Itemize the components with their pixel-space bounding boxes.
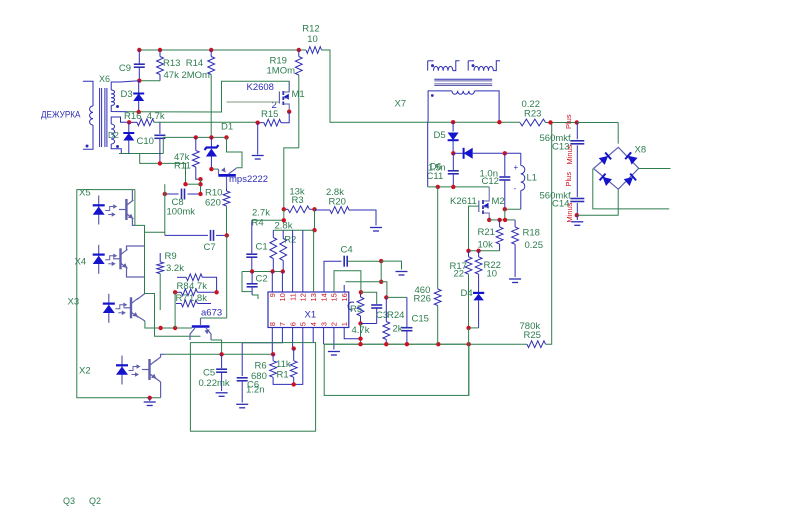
svg-text:R26: R26	[414, 294, 431, 305]
wire M1 gate	[227, 101, 280, 103]
capacitor C14	[540, 191, 585, 226]
svg-text:R12: R12	[302, 24, 319, 35]
transformer X7 primary windings	[428, 61, 500, 71]
svg-text:D4: D4	[461, 288, 473, 299]
resistor R16	[129, 119, 258, 126]
wire R11 bottom node	[183, 177, 202, 194]
label M2	[492, 196, 505, 207]
wire X7 bottom rail	[428, 120, 520, 124]
resistor R14	[208, 50, 215, 137]
svg-text:0.25: 0.25	[525, 240, 544, 251]
wire D4 bottom to rail	[466, 326, 478, 345]
capacitor C12	[480, 151, 511, 209]
svg-text:12: 12	[299, 293, 308, 301]
svg-text:C10: C10	[137, 136, 154, 147]
resistor R10	[223, 188, 230, 235]
svg-text:M2: M2	[492, 196, 505, 207]
resistor R8	[173, 289, 219, 296]
label 47k 2MOm	[164, 70, 211, 81]
diode D4	[461, 288, 485, 328]
wire M2 source rail	[487, 218, 515, 222]
label 2.8k	[275, 221, 293, 232]
capacitor C13	[540, 123, 585, 198]
resistor R1	[290, 346, 297, 386]
box A around C5/C6	[190, 343, 315, 432]
transformer X6	[83, 74, 139, 154]
wire pin15 to R5	[334, 271, 361, 293]
svg-text:ДЕЖУРКА: ДЕЖУРКА	[41, 110, 81, 121]
inductor L1	[514, 153, 538, 209]
junction dots R3	[282, 207, 317, 211]
capacitor C10	[137, 122, 166, 163]
wire L1 bottom	[503, 207, 521, 220]
label 2.7k	[252, 208, 270, 219]
wire bridge left output	[593, 169, 669, 209]
svg-text:10: 10	[278, 293, 287, 301]
svg-text:X5: X5	[79, 188, 91, 199]
wire R24 top to C15	[386, 296, 407, 298]
svg-text:M1: M1	[292, 89, 305, 100]
wire pin10	[281, 272, 283, 293]
wire bridge bottom	[577, 189, 618, 215]
label X2	[79, 366, 91, 377]
optocoupler X3	[103, 294, 145, 323]
label 11k R1	[276, 359, 291, 381]
capacitor C1	[246, 220, 267, 271]
capacitor C6	[236, 378, 264, 408]
resistor R23	[520, 99, 577, 126]
wire C2 corner	[242, 272, 252, 292]
svg-text:D1: D1	[221, 122, 233, 133]
svg-text:10k: 10k	[478, 240, 494, 251]
wire pin6 to R1	[292, 328, 294, 349]
svg-text:+: +	[514, 163, 519, 172]
ground pin2	[328, 352, 340, 356]
transformer X7 secondary	[428, 91, 499, 122]
label M1	[292, 89, 305, 100]
svg-text:R21: R21	[478, 227, 495, 238]
box B feedback	[324, 344, 469, 395]
svg-text:R15: R15	[261, 109, 278, 120]
svg-text:620: 620	[205, 198, 221, 209]
svg-text:C5: C5	[203, 368, 215, 379]
svg-text:4: 4	[309, 322, 318, 326]
svg-text:100mk: 100mk	[167, 207, 196, 218]
wire R5 bottom node	[358, 324, 362, 345]
label X4	[75, 257, 87, 268]
svg-text:8: 8	[268, 322, 277, 326]
resistor R9	[157, 251, 177, 310]
svg-text:C9: C9	[119, 63, 131, 74]
wire R8 left feed	[174, 292, 176, 328]
svg-text:2k: 2k	[393, 324, 403, 335]
transistor a673	[190, 308, 222, 341]
resistor R6	[251, 354, 294, 384]
resistor R26	[414, 187, 442, 344]
wire C4 ground branch	[381, 261, 401, 269]
svg-text:-: -	[514, 184, 517, 193]
svg-text:0.22mk: 0.22mk	[199, 378, 230, 389]
svg-text:L1: L1	[527, 173, 538, 184]
IC X1 body	[268, 292, 349, 328]
wire pin11	[292, 230, 294, 292]
svg-text:R18: R18	[523, 228, 540, 239]
junction dots R5	[358, 290, 363, 326]
wire pin4	[312, 328, 314, 343]
svg-text:C11: C11	[427, 171, 444, 182]
optocoupler box X5-X2 outline	[77, 190, 161, 398]
wire X3 collector branch	[145, 294, 201, 337]
svg-text:5: 5	[299, 322, 308, 326]
svg-text:R1: R1	[277, 370, 289, 381]
svg-text:D5: D5	[434, 130, 446, 141]
wire box B right edge	[468, 344, 470, 395]
label pin 2	[272, 100, 277, 111]
ground X2 box	[144, 396, 156, 406]
resistor R17	[450, 251, 472, 328]
svg-text:R2: R2	[284, 235, 296, 246]
optocoupler X4	[93, 245, 145, 277]
label Q3	[63, 496, 75, 506]
svg-text:4.7k: 4.7k	[352, 325, 370, 336]
label C3 R24	[376, 310, 404, 321]
svg-text:10: 10	[307, 34, 318, 45]
label X3	[68, 297, 80, 308]
svg-text:R13 R14: R13 R14	[163, 58, 203, 69]
svg-text:R16 4.7k: R16 4.7k	[124, 111, 165, 122]
label R8 4.7k	[177, 281, 208, 292]
svg-text:K2608: K2608	[247, 82, 274, 93]
label K2611	[450, 196, 477, 207]
wire pins9-10 rail	[242, 269, 285, 273]
svg-text:R23: R23	[524, 109, 541, 120]
label R10 620	[205, 188, 222, 209]
capacitor C7	[165, 230, 229, 253]
junction dots R23 right	[548, 120, 579, 124]
label Q2	[89, 496, 101, 506]
wire pin9	[271, 272, 273, 293]
resistor R25	[520, 123, 552, 348]
resistor R12	[302, 24, 321, 54]
capacitor C8	[163, 189, 203, 218]
junction dot D5 bottom	[451, 151, 455, 155]
wire D3 to K2608 drain	[127, 81, 289, 112]
svg-text:K2611: K2611	[450, 196, 477, 207]
bridge rectifier X8	[594, 147, 639, 189]
label 4.7k	[352, 325, 370, 336]
capacitor C2	[247, 272, 268, 300]
transformer X7 core	[434, 79, 492, 85]
wire C7 to a673 collector	[226, 235, 228, 318]
diode D5	[434, 122, 459, 153]
svg-text:C1: C1	[256, 242, 268, 253]
wire left vertical to C7	[164, 184, 166, 235]
svg-text:3.2k: 3.2k	[166, 263, 184, 274]
svg-text:C12: C12	[482, 176, 499, 187]
svg-text:2: 2	[330, 322, 339, 326]
label Plus upper	[564, 114, 573, 129]
resistor R2	[280, 230, 297, 271]
wire C9-R13 bottom	[139, 80, 160, 82]
optocoupler X5	[93, 190, 135, 225]
resistor R18	[509, 220, 543, 283]
wire pin14 to C4	[324, 261, 342, 292]
svg-text:D6: D6	[430, 162, 442, 172]
svg-text:1.2n: 1.2n	[246, 385, 265, 396]
label X5	[79, 188, 91, 199]
capacitor C11	[427, 153, 459, 187]
resistor R13	[157, 50, 164, 81]
svg-text:11: 11	[288, 293, 297, 301]
wire pin8	[271, 328, 273, 355]
svg-text:C7: C7	[204, 242, 216, 253]
wire R12 to X7 rail	[322, 50, 429, 122]
svg-text:Plus: Plus	[564, 114, 573, 129]
transistor Q mps2222	[211, 167, 268, 188]
mosfet M1	[279, 81, 289, 111]
resistor R20	[315, 187, 377, 226]
label X8	[635, 145, 647, 156]
svg-text:X6: X6	[99, 74, 110, 84]
svg-text:Minus: Minus	[565, 202, 574, 222]
label R16 4.7k	[124, 111, 165, 122]
mosfet M2	[479, 187, 489, 220]
svg-text:R20: R20	[329, 197, 346, 208]
wire X4 chain vertical	[144, 232, 146, 293]
resistor R4 vertical	[270, 230, 277, 271]
svg-text:Plus: Plus	[564, 172, 573, 187]
label 2k	[393, 324, 403, 335]
junction dot M1 source	[287, 110, 291, 114]
svg-text:R3: R3	[292, 195, 304, 206]
svg-text:9: 9	[268, 293, 277, 297]
svg-text:11k: 11k	[276, 359, 291, 370]
wire pin2 to ground	[333, 328, 335, 350]
resistor R19	[267, 50, 303, 148]
resistor R3	[284, 187, 315, 213]
IC X1 top pin numbers	[268, 293, 349, 301]
label R7 1.8k	[176, 293, 208, 304]
junction dots top rail	[137, 48, 301, 52]
diode D3	[121, 81, 145, 112]
junction dot R16 left	[127, 120, 131, 124]
wire pin13	[313, 230, 315, 292]
wire mps2222 collector	[227, 137, 243, 167]
svg-text:C15: C15	[412, 314, 429, 325]
junction dot D3 bottom	[137, 110, 141, 114]
zener D1	[205, 122, 234, 170]
svg-text:C4: C4	[341, 245, 353, 256]
wire plus rail to bridge	[577, 122, 618, 124]
ground R20	[370, 228, 382, 232]
wire 2.8k node	[273, 209, 316, 232]
capacitor C5	[199, 354, 230, 396]
wire bridge right output	[638, 168, 670, 170]
wire pin1 to R5 bottom	[344, 328, 360, 339]
svg-text:R8: R8	[177, 281, 189, 292]
resistor R5	[177, 274, 217, 292]
wire pin12	[302, 230, 304, 292]
svg-text:R24: R24	[387, 310, 404, 321]
capacitor C4	[341, 245, 382, 267]
label Minus upper	[565, 144, 574, 164]
svg-text:7: 7	[278, 322, 287, 326]
svg-text:16: 16	[340, 293, 349, 301]
junction dots a673 base rail	[158, 326, 177, 330]
label R4	[252, 218, 264, 229]
label 47k R11	[174, 152, 191, 172]
svg-text:Minus: Minus	[565, 144, 574, 164]
wire pin16 stub	[343, 285, 345, 292]
wire X7 left lead down	[427, 122, 429, 187]
svg-text:2.8k: 2.8k	[275, 221, 293, 232]
capacitor C9	[119, 50, 145, 81]
wire left end rail to D1 rail	[162, 137, 164, 153]
svg-text:1: 1	[340, 322, 349, 326]
svg-text:mps2222: mps2222	[229, 174, 268, 185]
wire X3 emitter to a673 base rail	[145, 321, 192, 328]
wire X5 emitter to C7/C8 vertical	[135, 190, 165, 233]
junction dot C4 right	[379, 259, 383, 263]
label R13 R14	[163, 58, 203, 69]
junction dots rail D1 net	[194, 135, 229, 139]
wire M2 gate	[469, 206, 479, 251]
capacitor C15	[401, 297, 429, 344]
svg-text:13: 13	[309, 293, 318, 301]
wire C11 bottom rail	[428, 185, 490, 189]
label Minus lower	[565, 202, 574, 222]
svg-text:3: 3	[319, 322, 328, 326]
wire rail D1 net	[163, 136, 226, 138]
svg-text:R4: R4	[252, 218, 264, 229]
resistor R21	[469, 220, 504, 251]
capacitor C3	[361, 305, 383, 324]
resistor R24	[383, 295, 390, 344]
ground below R15 node	[252, 123, 264, 159]
resistor R22	[475, 251, 501, 292]
svg-text:R25: R25	[524, 330, 541, 341]
wire a673 emitter to C5 node	[211, 340, 222, 354]
label 3.2k	[166, 263, 184, 274]
wire bridge top	[617, 123, 619, 144]
wire R5 top to C3	[361, 292, 377, 304]
wire a673 collector	[201, 317, 227, 319]
svg-text:1MOm: 1MOm	[267, 66, 296, 77]
wire pin7 to C6	[242, 328, 282, 377]
svg-text:X7: X7	[395, 99, 407, 110]
svg-text:Q2: Q2	[89, 496, 101, 506]
svg-text:a673: a673	[201, 308, 222, 319]
label Plus lower	[564, 172, 573, 187]
junction dot C9 bottom	[137, 79, 141, 83]
optocoupler X2	[116, 354, 165, 398]
svg-text:47k 2MOm: 47k 2MOm	[164, 70, 211, 81]
svg-text:Q3: Q3	[63, 496, 75, 506]
svg-text:C2: C2	[256, 274, 268, 285]
svg-text:6: 6	[288, 322, 297, 326]
svg-text:D3: D3	[121, 89, 133, 100]
wire C4 to R24 node	[346, 261, 387, 297]
svg-text:10: 10	[487, 269, 498, 280]
svg-text:R6: R6	[255, 361, 267, 372]
svg-text:680: 680	[251, 371, 267, 382]
diode D6	[453, 148, 521, 159]
label X7	[395, 99, 407, 110]
wire 2.7k node	[252, 209, 286, 222]
svg-text:X4: X4	[75, 257, 87, 268]
wire R19 to R3 node	[284, 148, 299, 209]
label ДЕЖУРКА	[41, 110, 81, 121]
svg-text:R9: R9	[165, 251, 177, 262]
wire pin5 to R1 bottom	[294, 328, 303, 385]
svg-text:X2: X2	[79, 366, 91, 377]
svg-text:X3: X3	[68, 297, 80, 308]
label K2608	[247, 82, 274, 93]
svg-text:15: 15	[330, 293, 339, 301]
resistor R7	[176, 300, 211, 307]
junction dot R15 left	[256, 121, 260, 125]
resistor R15	[258, 109, 290, 126]
wire rail under transformer	[119, 153, 163, 155]
wire pin3 to box	[323, 328, 325, 345]
wire bottom rail	[324, 342, 527, 346]
wire C10 bottom net	[140, 154, 186, 185]
ground C4 net	[396, 272, 408, 276]
svg-text:X1: X1	[305, 310, 317, 321]
label X1	[305, 310, 317, 321]
resistor R11	[192, 137, 200, 179]
IC X1 bottom pin numbers	[268, 322, 349, 326]
wire top rail (C9/R13/R14 to R12)	[139, 49, 306, 51]
junction dots R21 bottom	[466, 249, 481, 253]
wire X2 collector rail	[165, 352, 275, 356]
svg-text:R11: R11	[174, 161, 191, 172]
svg-text:X8: X8	[635, 145, 647, 156]
diode D2	[108, 122, 134, 153]
svg-text:14: 14	[319, 293, 328, 301]
resistor R5 vertical	[348, 292, 364, 323]
junction dot D1 bottom	[209, 167, 213, 171]
svg-text:D2: D2	[108, 130, 119, 140]
svg-text:22: 22	[454, 269, 465, 280]
label D6 / 1.5n	[428, 162, 446, 173]
